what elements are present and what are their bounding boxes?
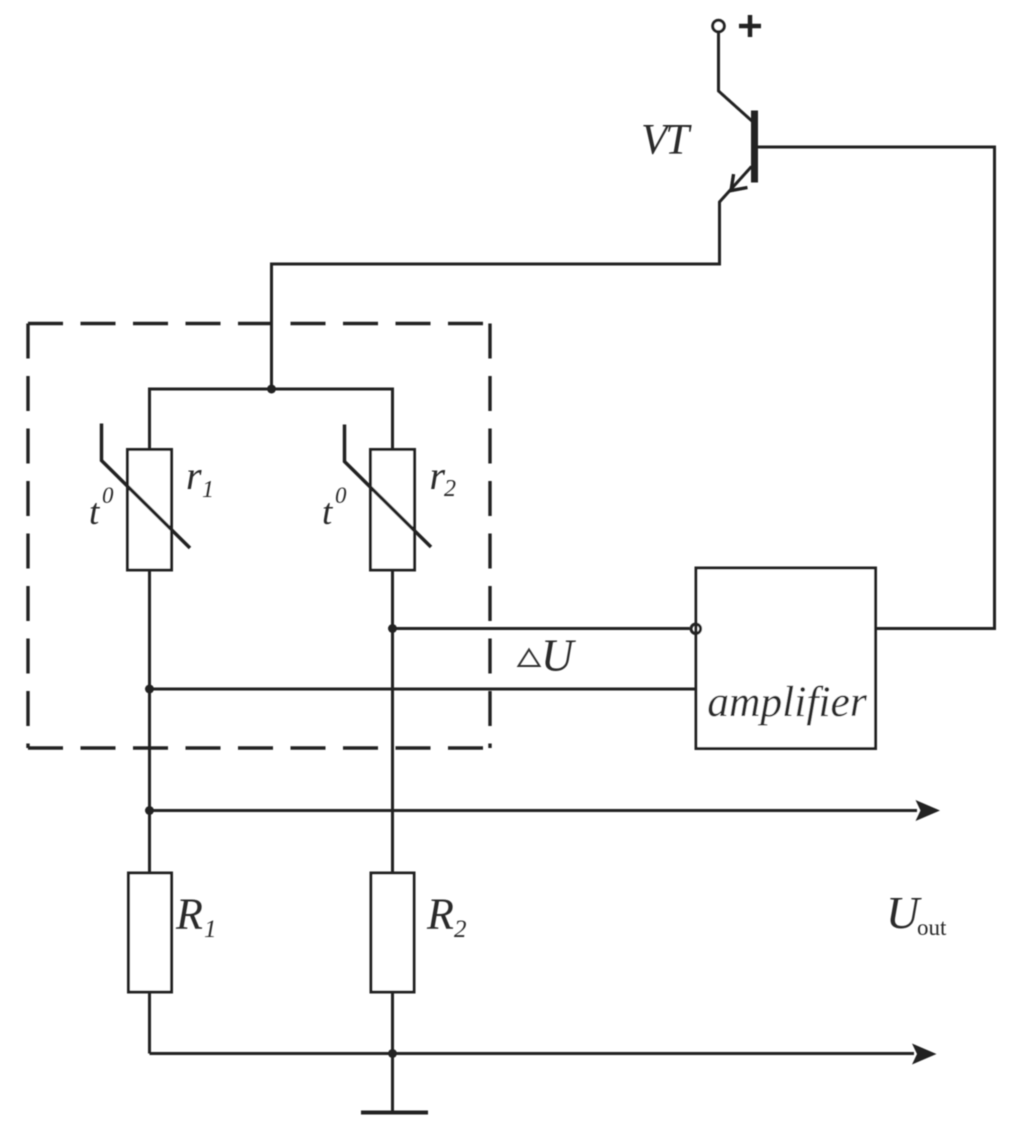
svg-text:2: 2 [444,476,456,502]
svg-text:0: 0 [335,483,347,508]
svg-text:R: R [426,890,454,939]
svg-text:t: t [89,492,101,533]
svg-text:out: out [917,915,947,940]
svg-text:2: 2 [454,916,467,943]
svg-text:r: r [186,453,202,498]
svg-text:1: 1 [204,916,217,943]
svg-text:amplifier: amplifier [707,678,868,726]
svg-text:VT: VT [641,117,692,164]
svg-text:t: t [322,492,334,533]
svg-text:0: 0 [102,483,114,508]
svg-text:1: 1 [202,477,214,503]
svg-text:U: U [541,631,576,681]
svg-text:R: R [175,890,203,939]
